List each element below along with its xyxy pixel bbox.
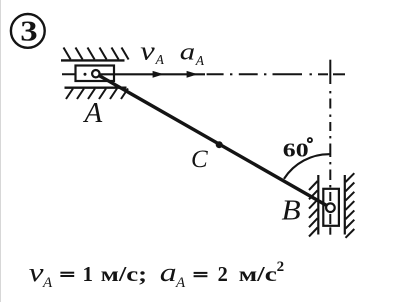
svg-text:A: A [42, 275, 53, 291]
pin at B [326, 203, 335, 212]
lower guide wall line at A [65, 86, 127, 88]
slider block A [76, 66, 115, 82]
left rail hatching [309, 181, 318, 237]
svg-text:м/с;: м/с; [101, 262, 148, 286]
svg-text:A: A [195, 53, 205, 68]
center dot in slider A [84, 73, 87, 76]
svg-text:A: A [155, 52, 165, 67]
svg-text:A: A [175, 275, 186, 291]
left guide rail at B [317, 175, 319, 235]
60 degree arc [284, 154, 330, 179]
axis line left of slider A [62, 73, 79, 75]
svg-text:v: v [140, 37, 155, 65]
velocity arrowhead [153, 71, 164, 78]
svg-text:a: a [180, 38, 195, 65]
lower wall hatching [66, 89, 128, 100]
given values text [29, 258, 284, 291]
svg-text:B: B [282, 196, 301, 226]
svg-text:м/с: м/с [239, 262, 277, 286]
right guide rail at B [344, 175, 346, 235]
problem number circle [11, 14, 45, 48]
upper guide wall line at A [61, 59, 125, 61]
upper wall hatching [64, 48, 129, 60]
solid part of horizontal axis with arrows [100, 73, 205, 75]
rod AB [96, 74, 331, 208]
point C on rod [216, 141, 223, 148]
vertical dash-dot axis through B [329, 60, 331, 235]
slider block B [323, 189, 339, 226]
pin at A [92, 70, 99, 77]
svg-text:a: a [160, 258, 177, 287]
svg-text:2: 2 [218, 262, 228, 286]
svg-text:2: 2 [277, 259, 285, 275]
svg-text:3: 3 [20, 14, 37, 47]
acceleration arrowhead [187, 71, 198, 78]
svg-text:A: A [83, 97, 103, 129]
svg-text:1: 1 [83, 262, 94, 286]
svg-text:C: C [191, 146, 208, 173]
dash-dot horizontal axis [207, 73, 345, 75]
svg-text:60: 60 [283, 139, 309, 162]
right rail hatching [346, 173, 355, 238]
